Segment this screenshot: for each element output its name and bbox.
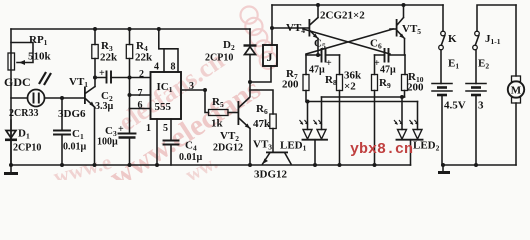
switch J1-1 [477, 5, 516, 31]
svg-text:J: J [267, 50, 273, 64]
capacitor C3 [129, 109, 131, 166]
svg-text:3.3µ: 3.3µ [95, 101, 114, 112]
resistor R5 [209, 110, 229, 116]
svg-text:2CP10: 2CP10 [13, 143, 41, 154]
svg-text:0.01µ: 0.01µ [63, 142, 87, 153]
switch K [442, 5, 444, 31]
wire LED row B [306, 101, 418, 103]
svg-text:+: + [99, 68, 105, 79]
pin 4 and 8 supply wires [159, 29, 178, 72]
transistor VT2 2DG12 [238, 101, 240, 125]
transistor VT4 2CG21 [309, 19, 311, 37]
wire top-left rail [11, 28, 250, 30]
svg-text:100µ: 100µ [97, 137, 118, 148]
resistor R10 [404, 55, 407, 97]
svg-text:GDC: GDC [4, 75, 31, 89]
svg-text:2CG21×2: 2CG21×2 [320, 10, 365, 22]
resistor R9 [374, 55, 376, 165]
resistor R3 [92, 45, 98, 59]
wire VT5 base stub [390, 28, 396, 30]
wire LED row A [322, 96, 405, 98]
svg-text:5: 5 [163, 123, 168, 134]
wire J column [271, 5, 273, 45]
op-amp IC1 555 box [151, 72, 182, 119]
svg-text:6: 6 [138, 100, 143, 111]
svg-text:K: K [448, 33, 457, 45]
wire left rail [10, 29, 12, 165]
node C1 tap [60, 96, 64, 100]
pin 3 wire [181, 90, 209, 113]
svg-text:ybx8.cn: ybx8.cn [350, 141, 413, 158]
capacitor C2 [95, 77, 150, 79]
svg-text:8: 8 [171, 62, 176, 73]
svg-text:+: + [326, 58, 332, 69]
svg-text:22k: 22k [100, 52, 118, 64]
svg-text:47µ: 47µ [309, 65, 325, 76]
resistor R7 [305, 55, 307, 102]
capacitor C6 [375, 54, 406, 56]
svg-text:2CR33: 2CR33 [9, 108, 38, 119]
wire R6 branch [250, 90, 273, 114]
ground left [10, 165, 12, 173]
svg-text:3: 3 [189, 81, 194, 92]
resistor RP1 [8, 53, 15, 70]
capacitor C5 [306, 54, 340, 56]
svg-text:1: 1 [146, 123, 151, 134]
svg-text:200: 200 [282, 79, 299, 91]
wire VT4 base [272, 27, 309, 29]
wire photocell row [11, 97, 85, 99]
svg-text:7: 7 [138, 88, 143, 99]
wire right top rail [272, 4, 443, 6]
svg-text:47k: 47k [253, 118, 271, 130]
svg-text:0.01µ: 0.01µ [179, 152, 203, 163]
svg-text:M: M [511, 85, 522, 97]
svg-text:200: 200 [407, 82, 424, 94]
svg-text:3: 3 [478, 100, 484, 112]
resistor R6 [270, 114, 276, 129]
svg-text:1k: 1k [211, 118, 224, 130]
svg-text:3DG12: 3DG12 [254, 169, 288, 181]
pin 1 wire [156, 119, 158, 165]
capacitor C4 [164, 141, 179, 145]
capacitor C1 [61, 98, 63, 165]
svg-text:47µ: 47µ [380, 65, 396, 76]
wire bottom rail [11, 164, 411, 166]
svg-text:2: 2 [139, 69, 144, 80]
svg-text:3DG6: 3DG6 [58, 108, 86, 120]
relay coil J [263, 45, 277, 66]
svg-text:4: 4 [154, 62, 159, 73]
svg-text:2CP10: 2CP10 [205, 53, 233, 64]
node C2 tap [93, 76, 97, 80]
pin 6 wire [130, 108, 151, 110]
wire cross coupling diagonals [303, 29, 393, 54]
diode D1 [10, 120, 12, 165]
svg-text:2DG12: 2DG12 [213, 143, 243, 154]
svg-text:×2: ×2 [344, 81, 356, 93]
motor M [515, 5, 517, 165]
svg-text:4.5V: 4.5V [444, 100, 466, 112]
transistor VT5 2CG21 [396, 19, 398, 37]
transistor VT3 3DG12 [266, 152, 288, 154]
svg-text:510k: 510k [28, 51, 52, 63]
svg-text:+: + [118, 124, 124, 135]
node bottom-left [9, 163, 13, 167]
pin 7 wire [130, 94, 151, 96]
LED1 pair [308, 97, 322, 130]
wire J bottom link [250, 66, 271, 82]
resistor R4 [126, 45, 132, 59]
ground right [442, 165, 444, 173]
LED2 pair [402, 97, 418, 130]
watermark rings [241, 7, 277, 69]
diode D2 [249, 29, 251, 97]
svg-text:22k: 22k [135, 52, 153, 64]
resistor R8 [339, 55, 341, 165]
svg-text:555: 555 [155, 101, 172, 113]
pin 5 wire [170, 119, 172, 165]
